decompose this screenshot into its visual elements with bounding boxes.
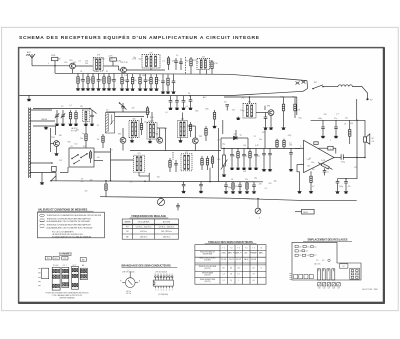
wire conv right drop (296, 97, 298, 115)
IF transformer T2 (142, 55, 160, 68)
chassis part 5 (302, 250, 305, 252)
ground (245, 190, 249, 193)
svg-text:25µ: 25µ (299, 118, 302, 120)
svg-text:525 Kc/s - 1605 Kc/s: 525 Kc/s - 1605 Kc/s (159, 226, 175, 228)
wire Q8 collector (122, 128, 124, 137)
svg-text:CONV.: CONV. (221, 253, 226, 255)
capacitor C28 (176, 203, 180, 210)
IF transformer T1 (93, 57, 103, 71)
wire Q5 base (51, 143, 54, 145)
svg-text:TENSION EMETTEUR: TENSION EMETTEUR (200, 279, 216, 281)
resistor R38 (249, 148, 251, 166)
svg-text:472: 472 (322, 260, 325, 262)
wire left drop to bus (54, 66, 56, 74)
svg-text:T 3: T 3 (237, 248, 239, 250)
chassis part 4 (295, 250, 298, 252)
svg-text:C26: C26 (323, 288, 326, 290)
ground (54, 152, 58, 155)
wire Q3 collector (159, 128, 161, 137)
resistor R11 (121, 74, 123, 88)
ground (166, 91, 170, 94)
wire Q8 emitter (122, 143, 124, 150)
ground (248, 167, 252, 170)
svg-text:TENSIONS CONTINUES RELEVEES PA: TENSIONS CONTINUES RELEVEES PAR RAPPORT (47, 224, 92, 227)
band switch box (69, 148, 94, 167)
ground (138, 88, 142, 91)
ground (222, 174, 226, 177)
resistor R29b (140, 118, 142, 135)
svg-text:12: 12 (160, 274, 162, 276)
ground (335, 190, 339, 193)
wire into T7 (111, 159, 134, 161)
ground (76, 87, 80, 90)
capacitor C10 (112, 73, 116, 87)
resistor R34 (294, 97, 296, 118)
svg-text:20: 20 (188, 93, 190, 95)
switch contact S1b (72, 155, 78, 159)
svg-text:220: 220 (85, 63, 88, 65)
dial pointer rect (42, 268, 49, 279)
ground (231, 190, 235, 193)
resistor R2 (110, 58, 117, 66)
svg-text:BT 7b: BT 7b (126, 293, 131, 295)
svg-text:150: 150 (350, 123, 353, 125)
chassis part 6 (295, 254, 298, 256)
ground (188, 107, 192, 110)
resistor R50 (349, 120, 351, 144)
wire Q5 emitter to ground (56, 146, 58, 152)
wire osc mid drop (55, 126, 57, 135)
ground (86, 87, 90, 90)
switch contact S1a (90, 109, 97, 114)
svg-text:25µ: 25µ (274, 180, 277, 182)
svg-text:5n: 5n (233, 156, 235, 158)
resistor R13 (131, 74, 133, 88)
ground (125, 88, 129, 91)
ferrite rod antenna L1 (29, 108, 31, 179)
IF can bar 1 (317, 269, 320, 280)
resistor R1 (52, 57, 58, 66)
wire Q1 to T1 (75, 65, 93, 67)
wire T6b top (182, 113, 184, 121)
svg-text:(VOLTS): (VOLTS) (204, 268, 210, 270)
svg-text:C27: C27 (328, 288, 331, 290)
ground (44, 126, 48, 129)
resistor R5 (87, 73, 89, 87)
svg-text:T 4: T 4 (245, 248, 247, 250)
svg-text:PU, CS OU CS ABSENTS: PU, CS OU CS ABSENTS (52, 231, 74, 234)
IF can bar 4 (332, 269, 335, 280)
band label box BE (80, 258, 86, 262)
ground (321, 135, 325, 138)
svg-text:5µ: 5µ (240, 134, 242, 136)
wire interstage 2 (188, 125, 196, 127)
svg-text:POTENTIOMETRE DE VOLUME AU MIN: POTENTIOMETRE DE VOLUME AU MINIMUM (52, 236, 91, 239)
svg-text:0,7: 0,7 (253, 274, 255, 276)
value labels speckle (58, 59, 349, 193)
svg-text:C22: C22 (314, 247, 317, 249)
svg-text:OS 026: OS 026 (251, 259, 256, 261)
svg-text:8,4: 8,4 (238, 267, 240, 269)
svg-text:CADRE: CADRE (41, 118, 48, 121)
svg-text:4,5: 4,5 (253, 267, 255, 269)
svg-text:3n: 3n (158, 80, 160, 82)
switch contact S1e (74, 160, 80, 164)
resistor R57 (102, 134, 104, 148)
resistor R31 (213, 110, 215, 125)
ground (252, 190, 256, 193)
svg-text:0,1: 0,1 (176, 55, 178, 57)
svg-text:DET.: DET. (244, 253, 248, 255)
wire R54 drop (209, 168, 211, 182)
transistor Q3 (157, 137, 163, 143)
ground (263, 127, 267, 130)
svg-text:(TR 21 90017): (TR 21 90017) (156, 271, 168, 273)
resistor R27 (105, 181, 107, 197)
wire AGC vertical (264, 106, 266, 110)
svg-text:BRANCHAGE DES SEMI-CONDUCTEU: BRANCHAGE DES SEMI-CONDUCTEURS (122, 265, 172, 268)
wire T2 secondary drop (150, 68, 152, 70)
svg-text:C29: C29 (337, 288, 340, 290)
bootstrap loop wire (338, 158, 358, 179)
svg-text:10n: 10n (259, 139, 262, 141)
svg-text:4,7: 4,7 (80, 80, 82, 82)
svg-text:455: 455 (262, 132, 265, 134)
svg-text:22n: 22n (345, 118, 348, 120)
wire pad drop (55, 173, 57, 182)
wire AGC drop (264, 128, 266, 148)
capacitor C23 (182, 96, 186, 107)
wire box to IF (94, 151, 111, 153)
capacitor C41 (224, 182, 228, 191)
svg-text:25µ: 25µ (254, 178, 257, 180)
feedback resistor R51 (321, 163, 329, 169)
wire P2 stem junction (257, 198, 259, 200)
resistor R52 (310, 175, 312, 191)
svg-text:GO: GO (55, 258, 58, 260)
svg-text:5µ: 5µ (154, 61, 156, 63)
svg-text:0,1: 0,1 (78, 61, 80, 63)
main bias bus (55, 73, 307, 80)
ground (84, 122, 88, 126)
svg-text:2,2: 2,2 (196, 62, 198, 64)
choke L3 (338, 85, 352, 87)
svg-text:4: 4 (163, 290, 164, 292)
wire Q4 emitter (194, 144, 196, 151)
svg-text:220: 220 (269, 183, 272, 185)
amp supply rail (311, 119, 365, 121)
trimmer CT2 (61, 110, 65, 123)
svg-text:C21: C21 (307, 246, 310, 248)
ground (68, 123, 72, 126)
dial tick marks (38, 269, 40, 286)
svg-text:10K: 10K (97, 139, 100, 141)
svg-text:465: 465 (132, 119, 135, 121)
battery rect (340, 264, 348, 268)
ground (262, 168, 266, 171)
svg-text:PO-GO: PO-GO (53, 265, 59, 267)
ground (236, 167, 240, 170)
node det junction (247, 148, 249, 150)
svg-text:OC 1: OC 1 (63, 265, 67, 267)
resistor R60 (167, 56, 169, 70)
svg-text:0,1: 0,1 (186, 106, 188, 108)
svg-text:47: 47 (106, 71, 108, 73)
transistor Q1 (70, 63, 76, 69)
svg-text:A LA MASSE AVEC UN VOLTMETRE E: A LA MASSE AVEC UN VOLTMETRE ELECTRONIQU… (47, 227, 94, 230)
capacitor C7 (97, 73, 101, 87)
note symbols (40, 214, 45, 227)
volume potentiometer P1 (221, 148, 228, 173)
svg-text:40n: 40n (228, 187, 231, 189)
svg-text:1K: 1K (245, 156, 247, 158)
svg-text:22n: 22n (90, 180, 93, 182)
capacitor C51 (334, 120, 338, 135)
wire T1 to Q2 (103, 65, 118, 67)
ground (171, 91, 175, 94)
capacitor C4 (81, 73, 85, 87)
svg-text:TR6: TR6 (267, 106, 270, 108)
svg-text:C20: C20 (299, 246, 302, 248)
ground (40, 173, 44, 185)
transistor pinout (122, 272, 138, 288)
svg-text:472: 472 (185, 152, 188, 154)
svg-text:VOL: VOL (217, 159, 221, 161)
resistor R17 (155, 74, 157, 88)
node battery terminal (366, 98, 368, 100)
ground (102, 87, 106, 90)
capacitor C60 (174, 58, 178, 70)
band label box OC (62, 256, 68, 260)
svg-text:10n: 10n (241, 98, 244, 100)
switch contact S2b (296, 81, 306, 85)
svg-text:T 5: T 5 (252, 248, 254, 250)
switch contact S1c (81, 154, 87, 158)
ground (175, 107, 179, 110)
ground (181, 107, 185, 110)
svg-text:220: 220 (132, 108, 135, 110)
resistor R19 (167, 74, 169, 90)
ground (61, 123, 65, 126)
ground (297, 186, 301, 193)
svg-text:100µ: 100µ (240, 110, 244, 112)
svg-text:64 B 172 387 - 7884: 64 B 172 387 - 7884 (362, 289, 377, 291)
wire U1 output (334, 157, 341, 159)
capacitor C12 (126, 74, 130, 88)
wire T6 top lead (249, 97, 251, 104)
svg-text:TABLEAU DES SEMI-CONDUCTEURS: TABLEAU DES SEMI-CONDUCTEURS (208, 241, 253, 244)
capacitor C64 (90, 110, 94, 123)
wire feedback (319, 147, 328, 149)
ground (344, 190, 348, 193)
chassis left ticks (289, 273, 291, 279)
svg-text:TR4: TR4 (155, 133, 158, 135)
svg-text:22n: 22n (179, 62, 182, 64)
ground (131, 88, 135, 91)
svg-text:470: 470 (232, 110, 235, 112)
ground (334, 135, 338, 138)
ground (289, 168, 293, 171)
output capacitor C53 (341, 154, 343, 159)
resistor R42 (232, 182, 234, 191)
tone box (302, 209, 315, 214)
ground (242, 167, 246, 170)
svg-text:160 - 280 Kc/s: 160 - 280 Kc/s (161, 231, 172, 233)
switch wafer BE (80, 268, 87, 279)
resistor R29c (189, 122, 191, 137)
wire tone box (295, 211, 302, 213)
svg-text:2: 2 (158, 290, 159, 292)
converter top wire (224, 96, 297, 98)
svg-text:100: 100 (157, 177, 160, 179)
chassis outline (292, 242, 361, 280)
wire R25 top (85, 126, 87, 131)
capacitor C20 (172, 74, 176, 90)
mixer transistor Q8 (120, 137, 126, 143)
bottom rail (100, 197, 357, 201)
svg-text:0,1: 0,1 (217, 140, 219, 142)
svg-text:478: 478 (97, 55, 100, 57)
svg-text:TENSIONS DE POLARISATION RELEV: TENSIONS DE POLARISATION RELEVEES AU CIR… (47, 214, 102, 217)
ground (199, 190, 203, 193)
svg-text:1: 1 (238, 280, 239, 282)
transformer T6 (243, 104, 256, 119)
svg-text:0,1: 0,1 (265, 188, 267, 190)
svg-text:9: 9 (169, 274, 170, 276)
svg-text:T 2: T 2 (230, 248, 232, 250)
resistor R21 (190, 57, 192, 74)
ground (236, 117, 240, 121)
wire Q1 emitter (72, 69, 74, 73)
svg-text:A LA MASSE AVEC UN VOLTMETRE D: A LA MASSE AVEC UN VOLTMETRE DE 20KOHM/V (47, 220, 92, 223)
capacitor C49 (289, 148, 293, 168)
ground (120, 88, 124, 91)
svg-text:4,7: 4,7 (312, 186, 314, 188)
IF row bus (130, 150, 221, 152)
IF transformer T3 (197, 58, 210, 69)
transistor Q7 (268, 110, 274, 116)
wire osc mid (33, 125, 56, 127)
wire rail to opamp (356, 120, 358, 157)
on-off switch S3 (313, 85, 323, 89)
resistor R8 (103, 73, 105, 87)
ground (107, 87, 111, 90)
wire speaker vertical (364, 120, 366, 137)
svg-text:470µ: 470µ (341, 162, 345, 164)
wire gang top (106, 111, 150, 113)
svg-text:100: 100 (243, 145, 246, 147)
ground (148, 139, 152, 143)
wire det to IF (221, 137, 227, 139)
node input junction (54, 65, 56, 67)
resistor R56 (211, 155, 213, 168)
resistor R26 (89, 150, 91, 163)
wire T3 leads (199, 70, 201, 75)
svg-text:C25: C25 (299, 255, 302, 257)
IF transformer T8 (181, 154, 192, 171)
svg-text:C28: C28 (332, 288, 335, 290)
svg-text:220: 220 (259, 183, 262, 185)
svg-text:1K: 1K (124, 80, 126, 82)
wire output to speaker node (343, 157, 365, 159)
svg-text:47n: 47n (348, 186, 351, 188)
svg-text:1,2: 1,2 (223, 280, 225, 282)
node rail joins (110, 180, 112, 182)
svg-text:1,3: 1,3 (230, 274, 232, 276)
ground (178, 138, 182, 143)
svg-text:TENSION COLLECTEUR: TENSION COLLECTEUR (199, 266, 217, 268)
supply rail lower (51, 181, 263, 182)
IF transformer T6b (178, 121, 188, 138)
svg-text:455 Kc/s: 455 Kc/s (140, 231, 147, 233)
capacitor C25 (121, 103, 125, 112)
svg-text:14: 14 (155, 274, 157, 276)
svg-text:1: 1 (300, 146, 301, 148)
svg-text:22n: 22n (245, 179, 248, 181)
dashed AGC drop (172, 152, 174, 160)
switch wafer OC1 (62, 267, 69, 287)
oscillator coil L2 (83, 110, 90, 122)
ground (91, 87, 95, 90)
svg-text:T 1: T 1 (222, 248, 224, 250)
wire U1 bottom lead (310, 171, 312, 174)
svg-text:10n: 10n (74, 143, 77, 145)
svg-text:C24: C24 (305, 251, 308, 253)
wire bus ends (303, 89, 308, 92)
svg-text:100µ: 100µ (339, 186, 343, 188)
chassis part 7 (302, 254, 305, 256)
svg-text:OS 170: OS 170 (221, 259, 226, 261)
resistor R23 (69, 110, 71, 123)
resistor R48 (276, 139, 278, 149)
ground (149, 88, 153, 91)
svg-text:1: 1 (48, 63, 49, 65)
svg-text:100µ: 100µ (318, 118, 322, 120)
chassis part 3 (311, 246, 314, 248)
wire T7 drop (148, 173, 150, 182)
wire rod tap 3 (31, 162, 53, 164)
wire supply drop (356, 99, 358, 120)
svg-text:0,1: 0,1 (69, 105, 71, 107)
ground at AVC left end (27, 96, 31, 102)
capacitor C58 (199, 182, 203, 190)
wire gang tap (115, 116, 144, 118)
ground (81, 87, 85, 90)
svg-text:470: 470 (224, 102, 227, 104)
trimmer CT1 (55, 110, 59, 123)
svg-text:GAMMES: GAMMES (59, 252, 72, 256)
capacitor C63 (226, 105, 230, 111)
switch wafer PO-GO (52, 267, 60, 290)
svg-text:10n: 10n (80, 138, 83, 140)
svg-text:330: 330 (59, 135, 62, 137)
svg-text:OS 171: OS 171 (229, 259, 234, 261)
capacitor C39 (254, 148, 258, 166)
resistor R22 (211, 60, 213, 74)
transistor Q2 (121, 67, 127, 73)
svg-text:68: 68 (292, 97, 294, 99)
svg-text:TR5: TR5 (199, 136, 202, 138)
capacitor C48 (268, 148, 272, 168)
ground (161, 91, 165, 94)
svg-text:VALEURS ET CONDITIONS DE MESUR: VALEURS ET CONDITIONS DE MESURES (38, 208, 88, 211)
wire Q7 emitter (270, 116, 272, 127)
speaker LS1 (363, 134, 369, 144)
capacitor C29 (264, 113, 268, 127)
capacitor C45 (252, 182, 256, 191)
capacitor C61 (179, 58, 183, 70)
svg-text:2n: 2n (327, 172, 329, 174)
